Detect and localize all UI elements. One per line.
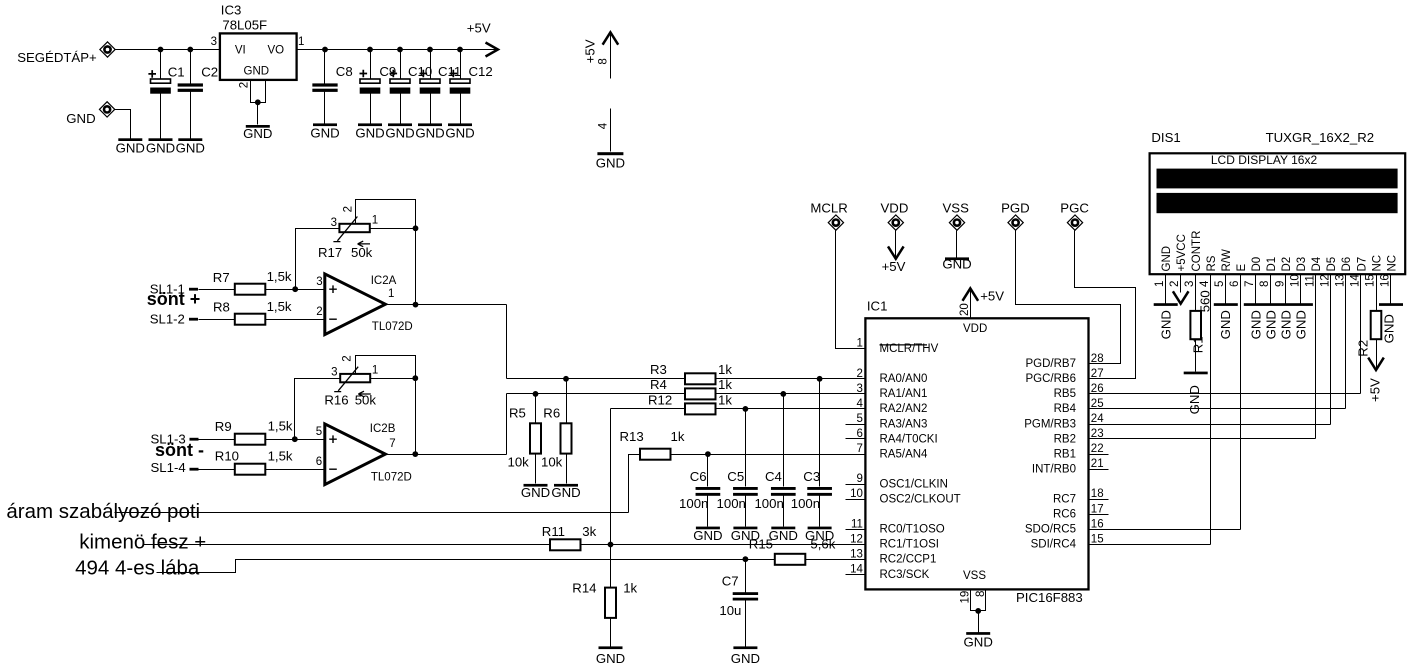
- svg-text:6: 6: [316, 456, 322, 468]
- supply arrow +5V rail: [486, 43, 498, 57]
- pin stub 12 IC1: [846, 544, 866, 546]
- svg-text:78L05F: 78L05F: [222, 17, 267, 32]
- ground symbol C6: [696, 527, 720, 530]
- svg-text:5,6k: 5,6k: [810, 536, 835, 551]
- svg-text:áram szabályozó poti: áram szabályozó poti: [6, 500, 200, 523]
- pin stub 21 IC1: [1089, 469, 1109, 471]
- svg-text:D0: D0: [1251, 257, 1263, 272]
- svg-text:RC0/T1OSO: RC0/T1OSO: [880, 524, 945, 536]
- wire R17 pin1: [370, 228, 416, 230]
- svg-text:100n: 100n: [791, 496, 820, 511]
- svg-text:11: 11: [1304, 275, 1316, 287]
- svg-text:4: 4: [598, 122, 610, 129]
- svg-text:PGM/RB3: PGM/RB3: [1024, 418, 1076, 430]
- resistor R15: [775, 554, 806, 565]
- plus mark C1: [148, 70, 156, 78]
- svg-text:GND: GND: [66, 111, 95, 126]
- wire aram poti to R13: [629, 455, 641, 513]
- junction C9 top: [367, 47, 373, 53]
- svg-text:D1: D1: [1266, 257, 1278, 272]
- junction C5 tap: [743, 406, 749, 412]
- wire DIS1 E to IC1 SDO/RC5: [1240, 275, 1242, 530]
- wire to C1: [160, 50, 162, 79]
- svg-text:9: 9: [1274, 281, 1286, 287]
- wire IC2A output: [386, 304, 507, 306]
- wire IC1 VSS pins: [971, 590, 986, 611]
- svg-text:VDD: VDD: [963, 323, 987, 335]
- svg-text:RC7: RC7: [1053, 494, 1076, 506]
- svg-text:RC6: RC6: [1053, 509, 1076, 521]
- svg-text:PGC/RB6: PGC/RB6: [1026, 373, 1077, 385]
- wire IC1 RB5 to DIS1 D7: [1089, 393, 1361, 395]
- svg-text:R4: R4: [650, 377, 667, 392]
- svg-text:7: 7: [389, 438, 395, 450]
- svg-text:+5V: +5V: [582, 39, 597, 63]
- svg-text:R15: R15: [749, 536, 773, 551]
- resistor R5: [530, 423, 541, 453]
- resistor R8: [235, 314, 265, 325]
- junction R16 pin1 feedback: [412, 375, 418, 381]
- wire to C12: [460, 50, 462, 79]
- capacitor C3: [807, 487, 832, 496]
- junction C3 tap: [817, 376, 823, 382]
- junction C10 top: [397, 47, 403, 53]
- pin stub 9 IC1: [846, 484, 866, 486]
- svg-text:10k: 10k: [508, 455, 530, 470]
- potentiometer R17 wiper: [333, 217, 357, 242]
- wire SL1-3 to R9: [199, 439, 235, 441]
- svg-text:4: 4: [1199, 280, 1211, 287]
- wire opamp V- pin 4: [610, 109, 612, 152]
- svg-text:IC2B: IC2B: [370, 423, 396, 435]
- display DIS1 row1: [1157, 169, 1398, 189]
- wire to C10: [400, 50, 402, 79]
- capacitor C9: [360, 79, 381, 94]
- wire VSS pad to ground: [956, 231, 958, 258]
- svg-text:E: E: [1236, 264, 1248, 272]
- wire R16 pin3 to + input: [295, 379, 341, 440]
- wire to C8: [324, 50, 326, 84]
- wire IC1 SDI/RC4 to DIS1 RS: [1089, 544, 1211, 546]
- overline MCLR: [880, 344, 928, 346]
- ground symbol C1: [149, 138, 173, 141]
- wire C2 to ground: [190, 92, 192, 139]
- supply arrow +5V opamp: [603, 32, 619, 44]
- svg-text:kimenö fesz +: kimenö fesz +: [79, 531, 206, 554]
- svg-text:GND: GND: [176, 141, 205, 156]
- svg-text:50k: 50k: [355, 392, 377, 407]
- ground symbol C5: [733, 527, 757, 530]
- wire SEGÉDTÁP+ to IC3 VI: [115, 49, 220, 51]
- wire IC3 GND pin: [251, 80, 266, 103]
- svg-text:+5V: +5V: [980, 289, 1004, 304]
- wire to C6: [707, 455, 709, 487]
- wire SL1-4 to R10: [199, 469, 235, 471]
- supply arrow +5V R2: [1368, 358, 1384, 370]
- wire DIS1 pin10 to ground: [1300, 275, 1302, 304]
- ground symbol IC1 VSS: [966, 632, 990, 635]
- wire C12 to ground: [460, 94, 462, 124]
- svg-text:GND: GND: [596, 651, 625, 666]
- svg-text:22: 22: [1091, 443, 1104, 455]
- pin stub SL1-3: [190, 438, 199, 441]
- svg-text:11: 11: [851, 518, 863, 530]
- svg-text:100n: 100n: [717, 496, 746, 511]
- svg-text:R13: R13: [620, 429, 644, 444]
- wire áram szabályozó poti: [115, 512, 629, 514]
- svg-text:RC2/CCP1: RC2/CCP1: [880, 554, 937, 566]
- junction C4 tap: [780, 391, 786, 397]
- capacitor C10: [390, 79, 411, 94]
- svg-text:GND: GND: [355, 126, 384, 141]
- svg-text:RB2: RB2: [1054, 433, 1076, 445]
- svg-text:GND: GND: [942, 257, 971, 272]
- svg-text:12: 12: [850, 533, 863, 545]
- svg-text:TL072D: TL072D: [372, 321, 413, 333]
- capacitor C6: [696, 487, 721, 496]
- junction R5 tap: [533, 391, 539, 397]
- svg-text:SDI/RC4: SDI/RC4: [1031, 539, 1077, 551]
- wire kimenö fesz + to R11: [143, 544, 551, 546]
- pad GND input: [99, 102, 114, 117]
- svg-text:sönt -: sönt -: [155, 440, 204, 460]
- svg-text:1: 1: [372, 365, 378, 377]
- wire IC1 VSS to ground: [978, 611, 980, 633]
- wire R12 to IC1 RA2: [716, 408, 866, 410]
- svg-text:14: 14: [850, 564, 863, 576]
- svg-text:CONTR: CONTR: [1191, 231, 1203, 272]
- svg-text:RA1/AN1: RA1/AN1: [880, 388, 928, 400]
- svg-text:GND: GND: [146, 141, 175, 156]
- op-amp IC2A: [325, 274, 386, 335]
- potentiometer R16 body: [340, 374, 370, 382]
- ground symbol C7: [733, 646, 757, 649]
- pad VSS: [949, 215, 964, 230]
- svg-text:PGC: PGC: [1060, 200, 1089, 215]
- pin stub 14 IC1: [846, 574, 866, 576]
- svg-text:LCD DISPLAY 16x2: LCD DISPLAY 16x2: [1211, 153, 1318, 167]
- svg-text:5: 5: [856, 413, 862, 425]
- op-amp IC2B + mark: [329, 435, 337, 443]
- svg-text:3: 3: [331, 367, 337, 379]
- svg-text:VSS: VSS: [943, 200, 970, 215]
- ground symbol C8: [313, 123, 337, 126]
- svg-text:100n: 100n: [754, 496, 783, 511]
- svg-text:GND: GND: [964, 635, 993, 650]
- svg-text:8: 8: [1259, 281, 1271, 287]
- wire DIS1 D6 to IC1 RB4: [1345, 275, 1347, 409]
- junction C1 top: [158, 47, 164, 53]
- svg-text:GND: GND: [1279, 310, 1294, 339]
- pin stub 13 IC1: [846, 559, 866, 561]
- svg-text:18: 18: [1091, 488, 1104, 500]
- wire node to R14: [610, 545, 612, 588]
- wire R3 to IC1 RA0: [716, 378, 866, 380]
- junction IC2B + input: [292, 436, 298, 442]
- svg-text:17: 17: [1091, 503, 1104, 515]
- wire to C11: [430, 50, 432, 79]
- pin stub SL1-2: [189, 318, 198, 321]
- ground symbol C4: [771, 527, 795, 530]
- resistor R2: [1371, 311, 1382, 339]
- svg-text:NC: NC: [1371, 255, 1383, 272]
- wire 494 4-es lába to R15: [157, 560, 775, 573]
- junction R17 pin1 feedback: [413, 225, 419, 231]
- pin stub 7 IC1: [846, 454, 866, 456]
- pin stub 10 IC1: [846, 499, 866, 501]
- svg-text:3: 3: [211, 36, 217, 48]
- svg-text:RB4: RB4: [1054, 403, 1077, 415]
- svg-text:12: 12: [1319, 274, 1331, 287]
- svg-text:PGD/RB7: PGD/RB7: [1026, 358, 1077, 370]
- junction C8 top: [322, 47, 328, 53]
- svg-text:1k: 1k: [623, 581, 637, 596]
- junction R14/R12 node: [608, 542, 614, 548]
- svg-text:+5V: +5V: [1368, 378, 1383, 402]
- svg-text:13: 13: [1334, 274, 1346, 287]
- svg-text:10u: 10u: [719, 603, 741, 618]
- potentiometer R17 body: [339, 224, 369, 232]
- svg-text:3: 3: [316, 276, 322, 288]
- svg-text:50k: 50k: [351, 245, 373, 260]
- svg-text:GND: GND: [116, 141, 145, 156]
- wire IC1 SDO/RC5 to DIS1 E: [1089, 529, 1241, 531]
- svg-text:D6: D6: [1341, 257, 1353, 272]
- ground symbol IC3: [246, 125, 270, 128]
- ground symbol DIS1 pin16: [1379, 303, 1403, 306]
- wire DIS1 pin2 supply: [1180, 275, 1182, 293]
- wire R16 pin1: [371, 378, 416, 380]
- wire DIS1 D5 to IC1 PGM/RB3: [1330, 275, 1332, 425]
- svg-text:15: 15: [1091, 533, 1104, 545]
- svg-text:16: 16: [1091, 518, 1104, 530]
- ground symbol R5: [524, 484, 548, 487]
- svg-text:9: 9: [856, 473, 862, 485]
- svg-text:IC3: IC3: [221, 3, 242, 18]
- svg-text:SL1-2: SL1-2: [150, 311, 185, 326]
- junction R6 tap: [563, 376, 569, 382]
- wire C6 to ground: [707, 496, 709, 527]
- display DIS1 row2: [1157, 193, 1398, 213]
- plus mark C10: [390, 70, 398, 78]
- svg-text:7: 7: [1244, 281, 1256, 287]
- svg-text:R3: R3: [650, 362, 667, 377]
- wire R11 to IC1 RC1: [581, 544, 866, 546]
- ground symbol R14: [599, 646, 623, 649]
- junction C12 top: [457, 47, 463, 53]
- svg-text:GND: GND: [521, 485, 550, 500]
- svg-text:R10: R10: [215, 448, 239, 463]
- ground symbol C2: [178, 138, 202, 141]
- pad PGC: [1067, 215, 1082, 230]
- svg-text:8: 8: [975, 591, 987, 597]
- svg-text:GND: GND: [415, 126, 444, 141]
- plus mark C11: [420, 70, 428, 78]
- capacitor C12: [450, 79, 471, 94]
- pad SEGÉDTÁP+: [100, 42, 115, 57]
- wire PGD to IC1 pin28: [1016, 231, 1121, 364]
- resistor R1: [1190, 311, 1201, 339]
- svg-text:R14: R14: [572, 581, 596, 596]
- wire IC2B output up to R4 row: [506, 394, 508, 455]
- svg-text:2: 2: [316, 306, 322, 318]
- display DIS1 body: [1150, 153, 1406, 274]
- pin stub 17 IC1: [1089, 514, 1109, 516]
- svg-text:R12: R12: [648, 392, 672, 407]
- svg-text:+5V: +5V: [467, 20, 491, 35]
- pin stub 4 IC1: [846, 408, 866, 410]
- wire IC2B output: [386, 454, 507, 456]
- svg-text:2: 2: [341, 355, 353, 361]
- pin stub 1 IC1: [846, 348, 866, 350]
- wire C5 to ground: [745, 496, 747, 527]
- svg-text:C6: C6: [690, 469, 707, 484]
- ground symbol DIS1 pin5: [1214, 303, 1238, 306]
- svg-text:D5: D5: [1326, 257, 1338, 272]
- pin stub 6 IC1: [846, 438, 866, 440]
- pin stub SL1-4: [190, 468, 199, 471]
- svg-text:GND: GND: [445, 126, 474, 141]
- svg-text:R9: R9: [215, 419, 232, 434]
- plus mark C12: [450, 70, 458, 78]
- svg-text:24: 24: [1091, 413, 1104, 425]
- svg-text:RA4/T0CKI: RA4/T0CKI: [880, 433, 938, 445]
- svg-text:R8: R8: [213, 300, 230, 315]
- op-amp IC2A - mark: [329, 318, 337, 320]
- wire to C3: [819, 379, 821, 487]
- pin stub 5 IC1: [846, 424, 866, 426]
- svg-text:+5V: +5V: [882, 259, 906, 274]
- svg-text:RC1/T1OSI: RC1/T1OSI: [880, 539, 939, 551]
- svg-text:7: 7: [856, 443, 862, 455]
- svg-text:C11: C11: [438, 64, 461, 79]
- svg-text:C5: C5: [727, 469, 744, 484]
- ground symbol opamp supply: [597, 152, 623, 155]
- ground symbol C9: [358, 123, 382, 126]
- wire R4 row to R5: [535, 394, 537, 424]
- pad MCLR: [828, 215, 843, 230]
- junction C7 tap: [743, 556, 749, 562]
- svg-text:MCLR: MCLR: [810, 200, 847, 215]
- wire R16 feedback: [356, 356, 416, 455]
- svg-text:RA3/AN3: RA3/AN3: [880, 418, 928, 430]
- svg-text:1,5k: 1,5k: [268, 448, 293, 463]
- wire R3 row to R6: [566, 379, 568, 424]
- svg-text:GND: GND: [596, 156, 625, 171]
- svg-text:R7: R7: [213, 270, 230, 285]
- pad PGD: [1008, 215, 1023, 230]
- capacitor C1: [150, 79, 171, 94]
- resistor R13: [640, 449, 671, 460]
- svg-text:IC1: IC1: [867, 299, 888, 314]
- junction C6 tap: [705, 451, 711, 457]
- wire R1 to ground: [1195, 340, 1197, 372]
- supply arrow +5V DIS1 pin2: [1173, 291, 1189, 303]
- svg-text:RA2/AN2: RA2/AN2: [880, 403, 928, 415]
- svg-text:10k: 10k: [541, 455, 563, 470]
- ground symbol C12: [448, 123, 472, 126]
- svg-text:1,5k: 1,5k: [267, 269, 292, 284]
- ground symbol C10: [388, 123, 412, 126]
- wire node to C7: [745, 560, 747, 593]
- svg-text:GND: GND: [1159, 310, 1174, 339]
- svg-text:3: 3: [1184, 281, 1196, 287]
- wire R12 down to kimeno fesz net: [610, 409, 612, 545]
- pin stub 3 IC1: [846, 393, 866, 395]
- svg-text:5: 5: [1214, 281, 1226, 287]
- capacitor C11: [420, 79, 441, 94]
- svg-text:GND: GND: [1294, 310, 1309, 339]
- wire R17 pin3 to + input: [296, 229, 340, 290]
- wire DIS1 pin8 to ground: [1270, 275, 1272, 304]
- wire C11 to ground: [430, 94, 432, 124]
- svg-text:D2: D2: [1281, 257, 1293, 272]
- resistor R6: [561, 423, 572, 453]
- resistor R4: [685, 388, 716, 399]
- svg-text:GND: GND: [1264, 310, 1279, 339]
- svg-text:C4: C4: [765, 469, 782, 484]
- resistor R14: [605, 588, 616, 618]
- potentiometer R16 wiper: [334, 367, 358, 392]
- wire DIS1 RS to IC1 SDI/RC4: [1210, 275, 1212, 545]
- svg-text:1: 1: [388, 288, 394, 300]
- svg-text:PGD: PGD: [1001, 200, 1030, 215]
- svg-text:1k: 1k: [718, 392, 732, 407]
- junction C11 top: [427, 47, 433, 53]
- wire C4 to ground: [783, 496, 785, 527]
- svg-text:3: 3: [331, 217, 337, 229]
- svg-text:2: 2: [1169, 281, 1181, 287]
- svg-text:6: 6: [1229, 281, 1241, 287]
- wire DIS1 pin5 to ground: [1225, 275, 1227, 304]
- svg-text:R6: R6: [543, 405, 560, 420]
- wire to C9: [370, 50, 372, 79]
- wire DIS1 pin16 to ground: [1390, 275, 1392, 304]
- wire C7 to ground: [745, 601, 747, 647]
- pin stub 2 IC1: [846, 378, 866, 380]
- junction IC1 VSS: [975, 608, 981, 614]
- svg-text:+5VCC: +5VCC: [1176, 234, 1188, 271]
- wire IC1 RB2 to DIS1 D4: [1089, 438, 1316, 440]
- svg-text:C2: C2: [201, 65, 218, 80]
- svg-text:R11: R11: [542, 524, 565, 539]
- svg-text:RA5/AN4: RA5/AN4: [880, 448, 929, 460]
- wire R10 to IC2B -: [266, 469, 325, 471]
- svg-text:GND: GND: [244, 66, 270, 78]
- svg-text:GND: GND: [1218, 310, 1233, 339]
- wire SL1-2 to R8: [199, 319, 235, 321]
- svg-text:GND: GND: [1382, 314, 1397, 343]
- wire R12 row left: [611, 408, 685, 410]
- svg-text:20: 20: [959, 303, 971, 316]
- svg-text:SDO/RC5: SDO/RC5: [1025, 524, 1076, 536]
- svg-text:C12: C12: [469, 64, 493, 79]
- wire C1 to ground: [160, 94, 162, 139]
- ground symbol DIS1 pin1: [1154, 303, 1178, 306]
- svg-text:VDD: VDD: [881, 200, 909, 215]
- wire DIS1 pin7 to ground: [1255, 275, 1257, 304]
- svg-text:1: 1: [298, 36, 304, 48]
- wire to C5: [745, 409, 747, 487]
- svg-text:R/W: R/W: [1221, 249, 1233, 272]
- wire DIS1 pin3 to R1: [1195, 275, 1197, 311]
- wire GND pad to ground: [115, 110, 131, 139]
- svg-text:RC3/SCK: RC3/SCK: [880, 569, 930, 581]
- svg-text:D3: D3: [1296, 257, 1308, 272]
- pin stub 22 IC1: [1089, 454, 1109, 456]
- wire R4 row left: [507, 393, 685, 395]
- svg-text:16: 16: [1379, 274, 1391, 287]
